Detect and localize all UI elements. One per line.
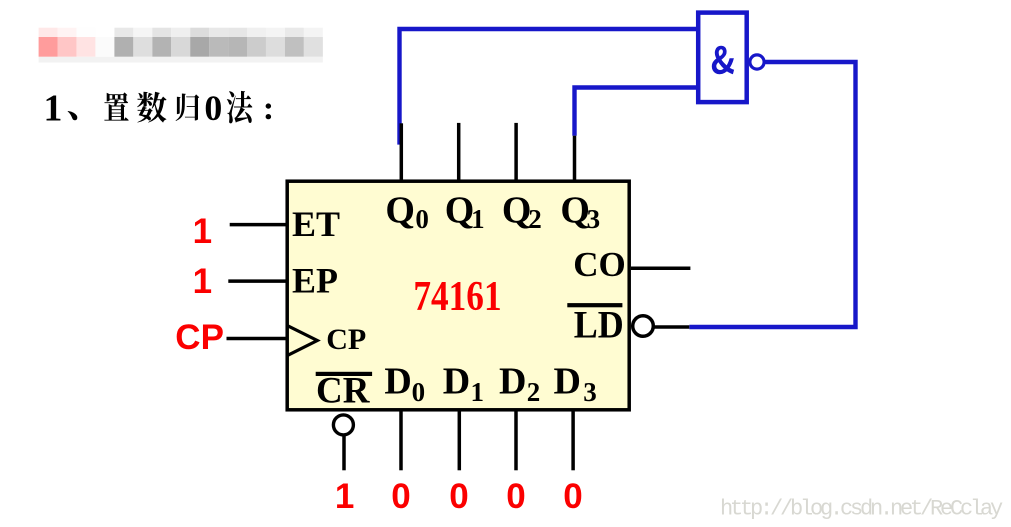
svg-text:0: 0 [391,477,410,516]
svg-text:ET: ET [292,204,340,244]
svg-text:CR: CR [316,371,371,412]
svg-text:LD: LD [574,304,624,347]
svg-text:CP: CP [326,323,366,356]
svg-text:D: D [499,361,526,403]
svg-text:Q: Q [385,190,415,232]
svg-text:Q: Q [502,190,532,232]
svg-text:3: 3 [583,377,597,407]
svg-text:Q: Q [445,190,475,232]
svg-text:2: 2 [528,204,542,234]
svg-text:D: D [554,361,581,403]
svg-text:Q: Q [560,190,590,232]
svg-text:EP: EP [292,261,338,301]
svg-text:0: 0 [412,377,426,407]
svg-text:0: 0 [415,204,429,234]
svg-text:1: 1 [193,262,212,301]
svg-text:D: D [384,361,411,403]
svg-text:0: 0 [506,477,525,516]
svg-text:1: 1 [471,204,485,234]
svg-text:1: 1 [43,88,62,130]
svg-text:0: 0 [204,88,222,128]
svg-text:D: D [443,361,470,403]
svg-text:0: 0 [563,477,582,516]
svg-text:74161: 74161 [413,274,501,320]
svg-text:0: 0 [449,477,468,516]
svg-text:CP: CP [175,318,224,357]
svg-text:3: 3 [587,204,601,234]
svg-text:CO: CO [573,245,626,284]
svg-text:1: 1 [335,477,354,516]
svg-text:2: 2 [527,377,541,407]
svg-text:http://blog.csdn.net/ReCclay: http://blog.csdn.net/ReCclay [720,497,1003,522]
svg-text:1: 1 [471,377,485,407]
svg-text:1: 1 [193,212,212,251]
